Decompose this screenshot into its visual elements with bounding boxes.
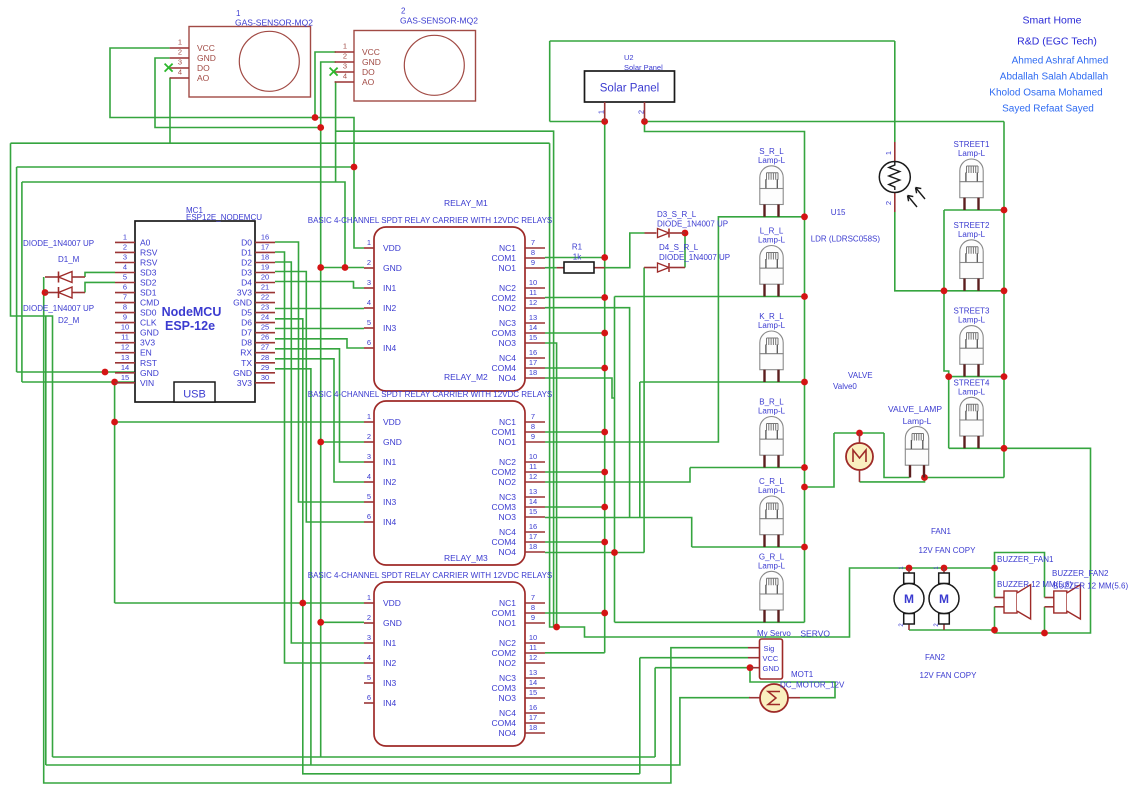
wire M1 COM2 (545, 297, 605, 299)
svg-text:11: 11 (529, 288, 537, 297)
wire street2 row (944, 290, 1004, 292)
wire solar pin1 row (550, 121, 605, 123)
svg-text:6: 6 (367, 338, 371, 347)
wire servo GND to MOT1 right (750, 668, 835, 698)
svg-text:G_R_L: G_R_L (759, 552, 785, 561)
junction L feeder on NO4 (611, 549, 618, 556)
svg-text:R1: R1 (572, 243, 583, 252)
svg-text:GND: GND (140, 368, 159, 378)
svg-text:COM3: COM3 (491, 683, 516, 693)
svg-text:NO1: NO1 (499, 263, 517, 273)
svg-text:D5: D5 (241, 308, 252, 318)
svg-text:5: 5 (367, 318, 371, 327)
svg-text:SD0: SD0 (140, 308, 157, 318)
wire M2 NO3 to C lamp (545, 518, 692, 548)
svg-text:10: 10 (121, 323, 129, 332)
svg-text:7: 7 (123, 293, 127, 302)
wire M1 GND row (321, 267, 364, 269)
svg-text:Lamp-L: Lamp-L (758, 561, 786, 570)
junction valve on rail (801, 484, 808, 491)
svg-text:NO2: NO2 (499, 303, 517, 313)
wire VCC net sensors to relay M1 VDD (110, 48, 364, 248)
svg-text:17: 17 (529, 532, 537, 541)
junction M3 VDD row (299, 600, 306, 607)
svg-text:14: 14 (121, 363, 129, 372)
svg-text:11: 11 (529, 462, 537, 471)
svg-text:COM2: COM2 (491, 293, 516, 303)
svg-text:4: 4 (178, 68, 182, 77)
svg-text:9: 9 (123, 313, 127, 322)
svg-text:USB: USB (183, 389, 206, 401)
wire M1 NO1 to R1 (545, 267, 557, 269)
wire LDR top feed (894, 41, 896, 142)
wire R1 to D3 (605, 233, 645, 268)
svg-text:NO4: NO4 (499, 728, 517, 738)
svg-text:10: 10 (529, 278, 537, 287)
wire K feeder down (639, 382, 641, 518)
svg-text:13: 13 (529, 487, 537, 496)
lamp STREET2 Lamp-L (953, 221, 990, 291)
junction D2_M (42, 289, 49, 296)
svg-text:STREET4: STREET4 (953, 378, 990, 387)
svg-text:2: 2 (884, 201, 893, 205)
svg-text:DIODE_1N4007 UP: DIODE_1N4007 UP (23, 304, 94, 313)
motor FAN2 12V FAN COPY (920, 566, 978, 680)
svg-text:RELAY_M3: RELAY_M3 (444, 553, 488, 563)
svg-text:12: 12 (529, 472, 537, 481)
wire M2 COM3 (545, 506, 605, 508)
wire servo VCC riser (639, 658, 641, 774)
svg-text:25: 25 (261, 323, 269, 332)
svg-text:16: 16 (529, 522, 537, 531)
svg-text:NC4: NC4 (499, 527, 516, 537)
junction street3 (1001, 373, 1008, 380)
relay module RELAY_M2 BASIC 4-CHANNEL SPDT RELAY CARRIER (308, 372, 553, 565)
svg-text:AO: AO (362, 77, 375, 87)
wire left rail x22 (21, 182, 23, 382)
wire valve bottom (860, 478, 925, 482)
wire y143 rail (11, 142, 550, 144)
relay module RELAY_M3 BASIC 4-CHANNEL SPDT RELAY CARRIER (308, 553, 553, 746)
buzzer BUZZER_FAN2 BUZZER 12 MM(5.6) (1045, 569, 1129, 619)
svg-text:GND: GND (233, 298, 252, 308)
svg-text:1: 1 (597, 110, 606, 114)
svg-text:4: 4 (367, 472, 371, 481)
wire M2 NO2 to B lamp (545, 468, 690, 483)
lamp G_R_L Lamp-L (758, 552, 786, 622)
svg-text:L_R_L: L_R_L (760, 227, 784, 236)
svg-text:NO3: NO3 (499, 512, 517, 522)
svg-text:SD1: SD1 (140, 288, 157, 298)
wire GND rail (320, 128, 322, 623)
svg-text:IN3: IN3 (383, 678, 397, 688)
wire x46 riser (45, 316, 47, 765)
svg-text:5: 5 (367, 673, 371, 682)
svg-text:1k: 1k (573, 253, 582, 262)
svg-text:Lamp-L: Lamp-L (758, 321, 786, 330)
wire sensor2 VCC (315, 52, 336, 118)
svg-text:STREET3: STREET3 (953, 307, 990, 316)
wire M1 NO4 jog (545, 378, 615, 398)
wire street4 to buzzer bus (995, 448, 1091, 633)
svg-text:4: 4 (343, 72, 347, 81)
wire K lamp row (640, 381, 805, 383)
svg-text:2: 2 (637, 110, 646, 114)
svg-text:9: 9 (531, 258, 535, 267)
svg-text:D6: D6 (241, 318, 252, 328)
wire sensor1 GND (155, 58, 321, 128)
junction street2 left (941, 287, 948, 294)
svg-text:STREET1: STREET1 (953, 140, 990, 149)
svg-text:Lamp-L: Lamp-L (758, 156, 786, 165)
svg-text:VCC: VCC (197, 43, 215, 53)
svg-text:RELAY_M2: RELAY_M2 (444, 372, 488, 382)
wire M3 COM1 (545, 612, 605, 614)
svg-text:5: 5 (123, 273, 127, 282)
junction COM1 M2 (601, 429, 608, 436)
svg-text:NO3: NO3 (499, 338, 517, 348)
svg-text:COM4: COM4 (491, 363, 516, 373)
svg-text:VDD: VDD (383, 598, 401, 608)
svg-text:FAN2: FAN2 (925, 653, 946, 662)
svg-text:VCC: VCC (763, 654, 779, 663)
svg-text:21: 21 (261, 283, 269, 292)
svg-text:16: 16 (261, 232, 269, 241)
svg-text:IN4: IN4 (383, 517, 397, 527)
wire L lamp row (615, 296, 805, 298)
diode D2_M DIODE_1N4007 (23, 287, 94, 325)
svg-text:DIODE_1N4007 UP: DIODE_1N4007 UP (657, 220, 728, 229)
svg-text:DIODE_1N4007 UP: DIODE_1N4007 UP (23, 239, 94, 248)
svg-text:Valve0: Valve0 (833, 382, 857, 391)
no-connect X sensor2 DO (330, 68, 338, 76)
wire TX to M2 IN2 (275, 359, 364, 482)
svg-text:12V FAN COPY: 12V FAN COPY (920, 671, 978, 680)
svg-text:2: 2 (367, 258, 371, 267)
svg-text:DO: DO (197, 63, 210, 73)
svg-text:15: 15 (529, 507, 537, 516)
svg-text:Sig: Sig (764, 644, 775, 653)
svg-text:TX: TX (241, 358, 252, 368)
junction L lamp rail (801, 293, 808, 300)
lamp S_R_L Lamp-L (758, 147, 786, 217)
wire G lamp row (615, 621, 805, 623)
junction B lamp rail (801, 464, 808, 471)
svg-text:B_R_L: B_R_L (759, 398, 784, 407)
gas sensor U$1 GAS-SENSOR-MQ2 (170, 9, 314, 97)
wire buzzer2 bottom feed (1044, 607, 1046, 633)
svg-text:3: 3 (178, 58, 182, 67)
svg-text:VALVE: VALVE (848, 371, 873, 380)
svg-text:NC1: NC1 (499, 243, 516, 253)
svg-text:9: 9 (531, 432, 535, 441)
svg-text:SD2: SD2 (140, 278, 157, 288)
wire left AO1 route (11, 143, 53, 757)
wire M2 NO4 row (545, 552, 644, 554)
svg-text:NC4: NC4 (499, 708, 516, 718)
svg-text:COM3: COM3 (491, 328, 516, 338)
wire servo GND riser (654, 668, 656, 757)
svg-text:GAS-SENSOR-MQ2: GAS-SENSOR-MQ2 (400, 16, 478, 26)
svg-text:3: 3 (367, 452, 371, 461)
svg-text:COM1: COM1 (491, 427, 516, 437)
svg-text:1: 1 (367, 238, 371, 247)
junction street2 (1001, 287, 1008, 294)
wire M3 COM2 row (545, 652, 605, 654)
svg-text:D8: D8 (241, 338, 252, 348)
svg-text:Solar Panel: Solar Panel (624, 63, 663, 72)
wire D3 to M2 IN4 (275, 272, 364, 523)
wire solar pin2 to lamp rail (645, 122, 805, 623)
svg-text:10: 10 (529, 452, 537, 461)
lamp C_R_L Lamp-L (758, 477, 786, 547)
wire M1 NO3 down (545, 343, 557, 627)
valve motor VALVE Valve0 (833, 371, 873, 482)
wire valve lamp to street rail (925, 477, 1005, 479)
wire M1 COM3 (545, 332, 605, 334)
svg-text:4: 4 (367, 653, 371, 662)
svg-text:13: 13 (529, 668, 537, 677)
IC MC1 ESP12E_NODEMCU NodeMCU (115, 206, 275, 402)
junction M2 VDD (111, 419, 118, 426)
svg-text:7: 7 (531, 238, 535, 247)
svg-text:RSV: RSV (140, 257, 158, 267)
svg-text:8: 8 (531, 248, 535, 257)
wire GND rail lower (320, 622, 322, 757)
svg-text:29: 29 (261, 363, 269, 372)
svg-text:NC2: NC2 (499, 457, 516, 467)
wire fan bottom bus (909, 629, 995, 631)
wire servo VCC row (640, 657, 748, 659)
wire left rail x16 (16, 167, 18, 372)
svg-text:Lamp-L: Lamp-L (758, 486, 786, 495)
junction COM1 M3 (601, 610, 608, 617)
svg-text:13: 13 (121, 353, 129, 362)
svg-text:D3: D3 (241, 267, 252, 277)
wire C lamp row (692, 546, 805, 548)
svg-text:GND: GND (233, 368, 252, 378)
wire sensor2 GND drop (321, 62, 336, 128)
svg-text:18: 18 (529, 723, 537, 732)
svg-text:1: 1 (178, 38, 182, 47)
junction VIN pin15 (111, 379, 118, 386)
svg-text:12: 12 (121, 343, 129, 352)
junction COM4 M2 (601, 539, 608, 546)
svg-text:IN2: IN2 (383, 658, 397, 668)
junction valve lamp leg (921, 474, 928, 481)
wire sensor1 AO drop (169, 78, 171, 143)
svg-text:NC1: NC1 (499, 598, 516, 608)
svg-text:19: 19 (261, 262, 269, 271)
svg-text:A0: A0 (140, 237, 151, 247)
junction street4 (1001, 445, 1008, 452)
junction M1 GND a (342, 264, 349, 271)
gas sensor U$2 GAS-SENSOR-MQ2 (335, 7, 479, 102)
wire M2 VDD row (115, 421, 364, 423)
svg-text:BASIC 4-CHANNEL SPDT RELAY CAR: BASIC 4-CHANNEL SPDT RELAY CARRIER WITH … (308, 390, 553, 399)
wire buzzer1 top feed (994, 568, 996, 598)
wire GND29 descend (275, 369, 311, 765)
lamp STREET1 Lamp-L (953, 140, 990, 210)
svg-text:17: 17 (261, 242, 269, 251)
svg-text:4: 4 (123, 262, 127, 271)
svg-text:3: 3 (367, 278, 371, 287)
lamp STREET3 Lamp-L (953, 307, 990, 377)
svg-text:14: 14 (529, 678, 537, 687)
svg-text:15: 15 (529, 333, 537, 342)
motor MOT1 DC_MOTOR_12V (749, 670, 845, 712)
junction fan1 top (906, 565, 913, 572)
svg-text:IN1: IN1 (383, 638, 397, 648)
svg-text:GND: GND (362, 57, 381, 67)
junction fan2 top (941, 565, 948, 572)
svg-text:28: 28 (261, 353, 269, 362)
wire top rail (550, 40, 895, 42)
svg-text:2: 2 (367, 432, 371, 441)
svg-text:26: 26 (261, 333, 269, 342)
svg-text:4: 4 (367, 298, 371, 307)
svg-text:7: 7 (531, 412, 535, 421)
svg-text:3V3: 3V3 (237, 288, 252, 298)
svg-text:D4: D4 (241, 278, 252, 288)
svg-text:GND: GND (140, 328, 159, 338)
svg-text:My Servo: My Servo (757, 629, 791, 638)
svg-text:14: 14 (529, 497, 537, 506)
svg-text:5: 5 (367, 492, 371, 501)
svg-text:1: 1 (123, 232, 127, 241)
svg-text:R&D (EGC Tech): R&D (EGC Tech) (1017, 36, 1097, 48)
junction street3 left (945, 373, 952, 380)
wire B lamp row (690, 467, 805, 469)
svg-text:D3_S_R_L: D3_S_R_L (657, 210, 697, 219)
junction street1 (1001, 207, 1008, 214)
svg-text:NO2: NO2 (499, 658, 517, 668)
junction buzzer2 bottom (1041, 630, 1048, 637)
svg-text:VALVE_LAMP: VALVE_LAMP (888, 404, 942, 414)
svg-text:BUZZER_FAN2: BUZZER_FAN2 (1052, 569, 1109, 578)
svg-text:3V3: 3V3 (140, 338, 155, 348)
svg-text:18: 18 (261, 252, 269, 261)
wire M2 COM1 (545, 431, 605, 433)
svg-text:12: 12 (529, 298, 537, 307)
junction NO3 on fan bus (553, 624, 560, 631)
svg-text:IN4: IN4 (383, 698, 397, 708)
svg-text:16: 16 (529, 348, 537, 357)
lamp STREET4 Lamp-L (953, 378, 990, 448)
wire COM rail (604, 122, 606, 653)
svg-text:3: 3 (343, 62, 347, 71)
svg-text:U15: U15 (831, 208, 846, 217)
wire D4 anode drop (643, 268, 645, 553)
svg-text:NC3: NC3 (499, 673, 516, 683)
svg-text:NC2: NC2 (499, 283, 516, 293)
wire D6 to bus y773 (275, 319, 640, 774)
svg-text:NO3: NO3 (499, 693, 517, 703)
svg-text:RSV: RSV (140, 247, 158, 257)
junction sensor GND (317, 124, 324, 131)
wire M1 NO2 down (545, 308, 630, 518)
svg-text:EN: EN (140, 348, 152, 358)
svg-text:RX: RX (240, 348, 252, 358)
svg-text:3V3: 3V3 (237, 378, 252, 388)
svg-text:NodeMCU: NodeMCU (162, 305, 222, 319)
svg-text:IN2: IN2 (383, 303, 397, 313)
svg-text:Lamp-L: Lamp-L (958, 387, 986, 396)
svg-text:VCC: VCC (362, 47, 380, 57)
svg-text:RST: RST (140, 358, 157, 368)
wire y182 rail (22, 182, 345, 268)
svg-text:2: 2 (123, 242, 127, 251)
svg-text:CLK: CLK (140, 318, 157, 328)
junction solar pin1 (601, 118, 608, 125)
LDR U15 LDR (LDRSC058S) (811, 142, 925, 244)
svg-text:24: 24 (261, 313, 269, 322)
wire street right rail (1003, 122, 1005, 478)
junction COM4 M1 (601, 365, 608, 372)
svg-text:NC1: NC1 (499, 417, 516, 427)
junction valve top (856, 430, 863, 437)
svg-text:SERVO: SERVO (800, 629, 830, 639)
svg-text:VDD: VDD (383, 417, 401, 427)
wire L-G lamp riser (614, 297, 616, 623)
wire y131 route (336, 131, 554, 627)
junction COM3 M2 (601, 504, 608, 511)
svg-text:D2_M: D2_M (58, 316, 80, 325)
wire valve top row (834, 432, 884, 434)
diode D4_S_R_L DIODE_1N4007 (644, 243, 730, 272)
svg-text:Lamp-L: Lamp-L (758, 236, 786, 245)
svg-text:COM4: COM4 (491, 718, 516, 728)
wire D4 to M1 IN1 (275, 282, 364, 289)
junction COM2 M2 (601, 469, 608, 476)
svg-text:Smart Home: Smart Home (1023, 15, 1082, 27)
svg-text:30: 30 (261, 373, 269, 382)
junction servo GND pin (747, 664, 754, 671)
svg-text:LDR (LDRSC058S): LDR (LDRSC058S) (811, 235, 881, 244)
lamp L_R_L Lamp-L (758, 227, 786, 297)
svg-text:8: 8 (123, 303, 127, 312)
svg-text:D7: D7 (241, 328, 252, 338)
junction GND pin14 (102, 369, 109, 376)
svg-text:ESP12E_NODEMCU: ESP12E_NODEMCU (186, 213, 262, 222)
svg-text:22: 22 (261, 293, 269, 302)
svg-text:Sayed Refaat Sayed: Sayed Refaat Sayed (1002, 104, 1094, 115)
svg-text:2: 2 (343, 52, 347, 61)
svg-text:RELAY_M1: RELAY_M1 (444, 198, 488, 208)
svg-text:VDD: VDD (383, 243, 401, 253)
wire valve to lamp rail (805, 433, 835, 487)
motor FAN1 12V FAN COPY (894, 527, 976, 630)
svg-text:U2: U2 (624, 53, 634, 62)
wire M1 COM4 (545, 367, 605, 369)
diode D1_M DIODE_1N4007 (23, 239, 94, 283)
svg-text:D4_S_R_L: D4_S_R_L (659, 243, 699, 252)
wire solar pin2 to street rail (645, 121, 1005, 123)
wire M3 GND row (321, 621, 364, 623)
junction buzzer1 bottom (991, 627, 998, 634)
svg-text:3: 3 (367, 633, 371, 642)
svg-text:2: 2 (401, 7, 406, 16)
svg-text:NC3: NC3 (499, 318, 516, 328)
svg-text:1: 1 (343, 42, 347, 51)
diode D3_S_R_L DIODE_1N4007 (645, 210, 729, 238)
wire M3 VDD row (115, 602, 364, 604)
wire VDD rail x114 (114, 382, 116, 603)
wire D7 to M1 IN3 (275, 328, 364, 330)
lamp K_R_L Lamp-L (758, 312, 786, 382)
svg-text:6: 6 (123, 283, 127, 292)
wire street left rail (944, 210, 949, 448)
